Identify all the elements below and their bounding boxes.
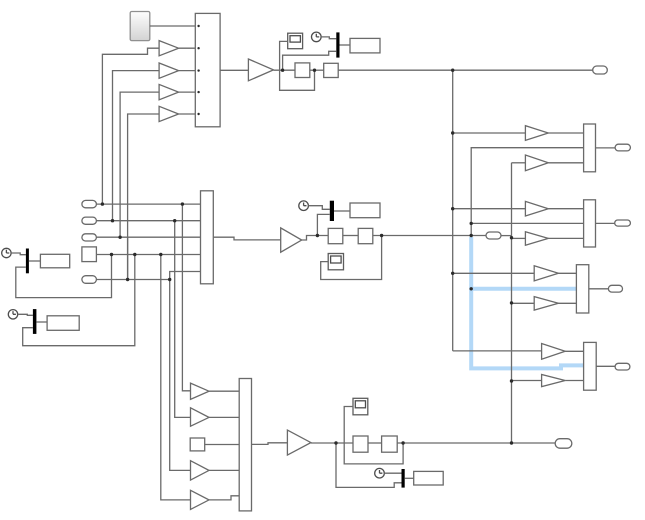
- wire In5 line: [96, 279, 169, 281]
- constant K3 (small square source): [190, 438, 205, 451]
- node bus B3 P5: [510, 236, 513, 239]
- gain G6 (middle gain): [281, 228, 302, 252]
- gain G17: [525, 232, 548, 246]
- gain G1: [159, 41, 179, 56]
- wire branch up to M4 lower input: [317, 214, 329, 235]
- bus B2 vertical (middle net riser): [471, 148, 583, 236]
- wire middle main line to port P5: [373, 235, 486, 237]
- wire G5 out main: [274, 69, 296, 71]
- node top main bus B1: [451, 69, 454, 72]
- clock C1: [312, 32, 322, 42]
- scope S2: [328, 254, 343, 270]
- gain G4: [159, 106, 179, 121]
- mux U5: [584, 200, 596, 247]
- wire U5 to Out3: [596, 222, 615, 224]
- wire U2 out to gain G6: [213, 237, 280, 240]
- bus B1 vertical (from top main line): [452, 70, 454, 351]
- wire M1 to workspace W1: [340, 44, 351, 46]
- wire B2 to mux U5: [471, 222, 583, 224]
- to-workspace W5: [414, 471, 444, 485]
- mux U7: [584, 342, 597, 390]
- wire B3 to gain G15: [512, 162, 526, 164]
- wire Z3 to Z4: [343, 235, 358, 237]
- node mid main blue branch: [470, 234, 473, 237]
- gain G5 (big top gain): [248, 59, 273, 81]
- unit delay Z4: [358, 228, 373, 243]
- node In5 branch: [168, 278, 171, 281]
- wire G21 to mux U7: [565, 380, 583, 382]
- wire G4 out: [179, 113, 196, 115]
- wire C3 to mux M3: [18, 314, 33, 315]
- mux U2 (middle 5-input mux): [201, 191, 214, 284]
- node blue branch U6: [470, 287, 473, 290]
- wire B1 to gain G14: [453, 132, 526, 134]
- node In2 riser: [111, 219, 114, 222]
- wire M2 to workspace W2: [29, 260, 41, 262]
- mux M1 (black bar): [336, 32, 339, 57]
- mux M2 (black bar): [26, 249, 29, 274]
- inport In3: [82, 234, 97, 241]
- constant block K1 (gradient source): [130, 12, 150, 41]
- wire G3 out: [179, 91, 196, 93]
- constant K2 (small square source): [82, 247, 97, 262]
- wire scope feedback loop to S1: [280, 41, 315, 90]
- wire branch up to M1 lower input: [283, 51, 337, 70]
- node bus B3 g3: [510, 301, 513, 304]
- wire In3 to mux U2: [96, 236, 200, 238]
- node K2 to M2: [110, 253, 113, 256]
- outport Out2: [615, 144, 630, 151]
- port P5 (small oval on middle net): [486, 232, 501, 239]
- wire highlighted signal (blue) vertical and to mux U7: [469, 237, 583, 368]
- wire mux U1 out to gain G5: [220, 69, 248, 71]
- unit delay Z1: [295, 63, 310, 78]
- wire G10 to mux U3: [209, 390, 239, 392]
- wire highlighted signal branch to mux U6: [469, 287, 576, 291]
- gain G11: [191, 408, 210, 426]
- wire In2 to mux U2: [96, 220, 200, 222]
- wire M4 to workspace W4: [334, 210, 350, 212]
- gain G2: [159, 63, 179, 78]
- wire K2 loop to M2 lower input: [16, 255, 112, 298]
- wire branch down to M5 lower input: [336, 443, 402, 487]
- wire G14 to mux U4: [548, 132, 583, 134]
- wire B1 to gain G16: [453, 208, 526, 210]
- wire riser In5 to G4: [128, 114, 160, 280]
- wire G18 to mux U6: [558, 272, 576, 274]
- wire K2 to mux U2: [96, 254, 200, 256]
- node bus B1 g1: [451, 131, 454, 134]
- wire In5 jog into mux U2: [170, 272, 201, 280]
- gain G7 (bottom gain): [287, 430, 311, 455]
- clock C2: [2, 248, 11, 257]
- node bus B2 branch: [470, 222, 473, 225]
- wire bottom main line to Out5: [397, 442, 555, 444]
- node bus B1 g2: [451, 207, 454, 210]
- gain G3: [159, 84, 179, 99]
- wire In2 branch down to gain G11: [175, 221, 191, 418]
- clock C3: [8, 310, 17, 319]
- bus B3 vertical (bottom net riser): [511, 163, 513, 443]
- to-workspace W4: [350, 203, 380, 218]
- gain G20: [542, 344, 566, 360]
- wire In1 to mux U2: [96, 203, 200, 205]
- wire G20 to mux U7: [565, 350, 583, 352]
- gain G18: [534, 266, 558, 281]
- to-workspace W3: [47, 316, 79, 331]
- outport Out1: [593, 66, 608, 74]
- unit delay Z6: [382, 436, 398, 452]
- unit delay Z2: [324, 63, 339, 77]
- wire Z5 to Z6: [368, 442, 382, 444]
- wire G17 to mux U5: [548, 237, 583, 239]
- gain G16: [525, 201, 548, 216]
- wire U6 to Out4: [589, 288, 609, 290]
- node In1 riser: [101, 202, 104, 205]
- wire C2 to mux M2: [11, 253, 26, 255]
- mux U3 (bottom 5-input mux): [239, 379, 251, 511]
- wire G13 to mux U3 (jog): [209, 496, 239, 500]
- wire P5 to bus B3: [501, 235, 512, 237]
- node top main after G5: [281, 69, 284, 72]
- gain G15: [525, 155, 548, 171]
- wire U7 to Out6: [596, 365, 615, 367]
- mux U6: [576, 265, 588, 313]
- mux M4 (black bar): [330, 201, 334, 221]
- clock C5: [375, 468, 385, 478]
- wire K3 to mux U3: [205, 444, 240, 446]
- unit delay Z3: [328, 228, 343, 243]
- mux U4: [584, 124, 596, 172]
- scope S3: [353, 398, 368, 415]
- wire U4 to Out2: [596, 147, 616, 149]
- node bus B3 bottom main: [510, 441, 513, 444]
- node mid main after G6: [316, 234, 319, 237]
- wire riser In3 to G3: [120, 92, 159, 237]
- outport Out5: [555, 439, 572, 449]
- wire scope loop to S3: [344, 407, 403, 464]
- wire In1 branch down to gain G10: [182, 204, 190, 391]
- gain G13: [191, 490, 210, 509]
- wire B1 to gain G20: [453, 350, 542, 352]
- wire riser In2 to G2: [113, 71, 160, 221]
- inport In2: [82, 217, 97, 224]
- wire G19 to mux U6: [558, 302, 576, 304]
- wire K2 loop to M3 lower input: [23, 255, 135, 346]
- node top main after Z1: [313, 69, 316, 72]
- node In3 riser: [118, 236, 121, 239]
- wire top main line to Out1: [338, 69, 593, 71]
- wire riser In1 to G1: [102, 48, 159, 204]
- node mid main after Z4: [380, 234, 383, 237]
- node bottom main after G7: [334, 441, 337, 444]
- wire U3 out to gain G7: [252, 443, 288, 445]
- node In2 branch: [173, 219, 176, 222]
- wire K1 to Mux1: [150, 25, 196, 27]
- scope S1: [288, 33, 303, 49]
- mux U1 input ticks: [197, 25, 199, 27]
- node In5 riser: [126, 278, 129, 281]
- wire M5 to workspace W5: [405, 477, 414, 479]
- wire K2 branch down to gain G13: [161, 255, 191, 500]
- node bottom main after Z6: [401, 441, 404, 444]
- unit delay Z5: [353, 436, 368, 452]
- gain G19: [534, 297, 558, 311]
- wire G16 to mux U5: [548, 208, 583, 210]
- inport In1: [82, 200, 97, 207]
- clock C4: [299, 201, 309, 211]
- wire B3 to gain G19: [512, 302, 535, 304]
- wire In5 branch down to gain G12: [170, 280, 191, 471]
- inport In5: [82, 276, 97, 284]
- gain G21: [542, 375, 566, 387]
- wire G15 to mux U4: [548, 162, 583, 164]
- to-workspace W2: [40, 254, 69, 267]
- node In1 branch: [181, 202, 184, 205]
- node bus B1 g3: [451, 272, 454, 275]
- wire G11 to mux U3: [209, 416, 239, 418]
- outport Out4: [608, 285, 622, 292]
- wire cross-link In3 line to In5 line: [127, 237, 129, 279]
- gain G10: [191, 383, 210, 399]
- wire G1 out: [179, 47, 196, 49]
- gain G14: [525, 126, 548, 141]
- wire Z1 to Z2: [310, 69, 324, 71]
- outport Out3: [615, 220, 631, 226]
- outport Out6: [615, 363, 630, 370]
- node bus B3 g4: [510, 379, 513, 382]
- mux M5 (black bar): [402, 469, 405, 488]
- wire C4 to mux M4: [308, 206, 329, 210]
- wire G12 to mux U3: [209, 469, 239, 471]
- wire G7 out main: [311, 442, 353, 444]
- wire G2 out: [179, 70, 196, 72]
- node K2 to M3: [133, 253, 136, 256]
- wire G6 out jog: [302, 236, 329, 241]
- wire B3 to gain G17: [512, 237, 526, 239]
- mux M3 (black bar): [33, 309, 37, 334]
- node K2 branch down: [159, 253, 162, 256]
- gain G12: [191, 461, 210, 480]
- mux U1 (top 5-input mux): [195, 13, 220, 126]
- wire scope loop to S2: [321, 236, 382, 280]
- wire B1 to gain G18: [453, 272, 535, 274]
- wire B3 to gain G21: [512, 380, 542, 382]
- wire M3 to workspace W3: [36, 321, 47, 323]
- to-workspace W1: [350, 38, 380, 53]
- wire C5 to mux M5: [384, 472, 401, 474]
- wire C1 to mux M1: [321, 37, 336, 39]
